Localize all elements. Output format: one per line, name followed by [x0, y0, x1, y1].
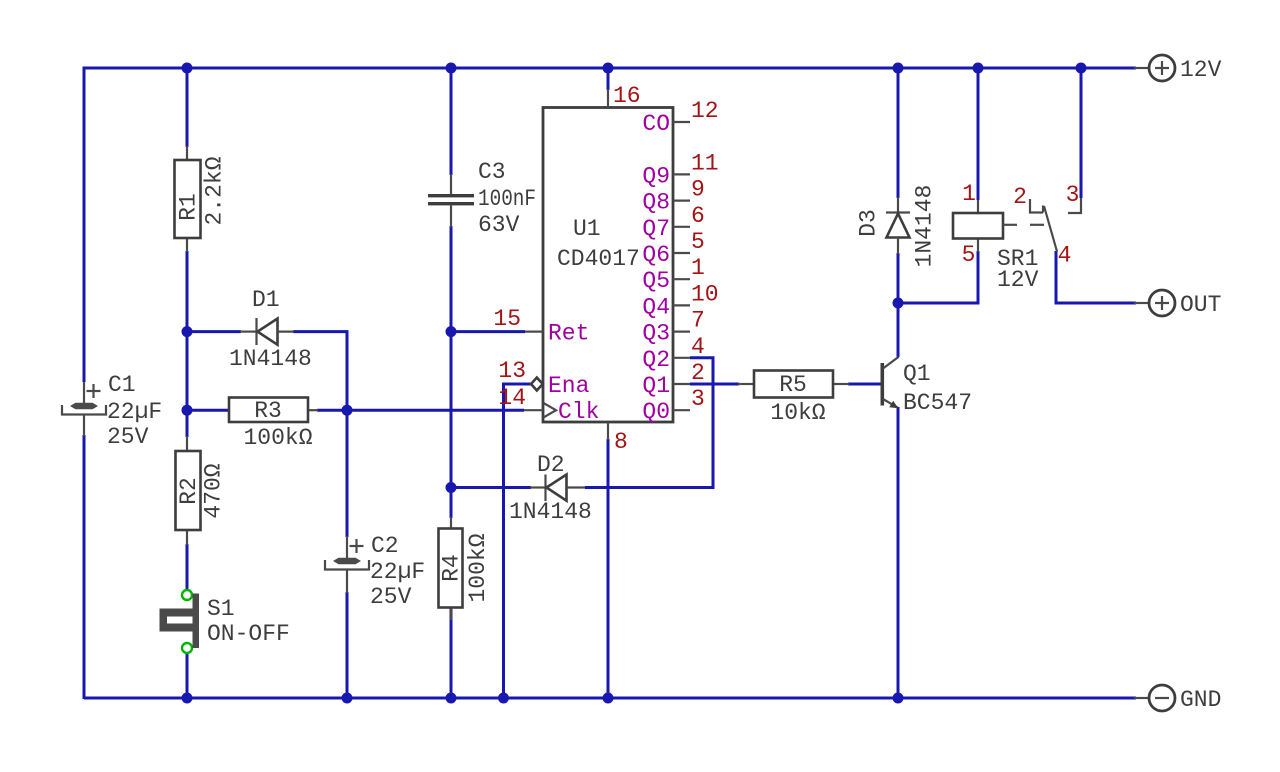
svg-text:Q4: Q4: [642, 294, 670, 320]
svg-text:Q3: Q3: [642, 321, 670, 347]
pin Ena 13 with diamond: [498, 358, 589, 399]
svg-text:CO: CO: [642, 111, 670, 137]
junction 12V rail / C3: [446, 63, 457, 74]
resistor R1: [175, 146, 228, 252]
capacitor C2: [325, 533, 425, 610]
svg-text:Ret: Ret: [548, 321, 589, 347]
junction GND rail / C2: [342, 693, 353, 704]
svg-text:9: 9: [691, 177, 705, 203]
wire Ret node to pin 15: [451, 330, 525, 333]
pin 8 VSS stub: [608, 422, 628, 455]
svg-text:R2: R2: [176, 477, 202, 505]
pin Ret 15: [493, 306, 589, 347]
wire R1 to node D1: [186, 251, 189, 332]
node R3 / D1 / C2: [342, 405, 353, 416]
wire contact pin 4 to OUT: [1056, 251, 1136, 303]
terminal OUT: [1134, 290, 1221, 318]
junction 12V rail / R1: [182, 63, 193, 74]
svg-text:BC547: BC547: [903, 390, 972, 416]
svg-text:5: 5: [691, 229, 705, 255]
node R1 / D1 / R2: [182, 326, 193, 337]
svg-text:10kΩ: 10kΩ: [770, 400, 825, 426]
svg-text:22µF: 22µF: [370, 559, 425, 585]
relay SR1 moving blade pin 4: [1044, 206, 1071, 269]
wire Q1 pin to R5: [690, 383, 739, 386]
svg-text:Q7: Q7: [642, 216, 670, 242]
svg-text:D3: D3: [856, 209, 882, 237]
svg-text:14: 14: [498, 385, 526, 411]
svg-text:7: 7: [691, 308, 705, 334]
wire R5 to Q1 base: [848, 383, 881, 386]
svg-text:3: 3: [1066, 182, 1080, 208]
svg-text:12V: 12V: [1180, 57, 1222, 83]
svg-text:R1: R1: [176, 193, 202, 221]
wire R4 to GND rail: [450, 607, 453, 698]
junction GND rail / R4: [446, 693, 457, 704]
svg-text:Q1: Q1: [642, 373, 670, 399]
pin CO 12: [642, 98, 718, 137]
node R4 / D2: [446, 482, 457, 493]
svg-text:1N4148: 1N4148: [509, 499, 592, 525]
pin Q7 6: [642, 203, 704, 242]
pin Q9 11: [642, 150, 718, 189]
IC U1 CD4017 body: [543, 108, 673, 423]
svg-text:R5: R5: [779, 372, 807, 398]
svg-text:D2: D2: [537, 452, 565, 478]
switch S1: [160, 590, 290, 653]
wire collector node to Q1 collector: [897, 303, 900, 357]
svg-text:R4: R4: [439, 554, 465, 582]
svg-text:Q1: Q1: [903, 361, 931, 387]
junction 12V rail / contact 3: [1076, 63, 1087, 74]
pin Q1 2: [642, 360, 704, 399]
svg-text:12: 12: [691, 98, 719, 124]
relay SR1 actuator dashes: [1003, 224, 1044, 226]
svg-text:13: 13: [498, 358, 526, 384]
svg-text:8: 8: [614, 429, 628, 455]
svg-text:R3: R3: [254, 398, 282, 424]
relay SR1 contact pin 2: [1013, 184, 1043, 213]
svg-text:OUT: OUT: [1180, 292, 1221, 318]
diode D3: [856, 185, 938, 268]
svg-text:12V: 12V: [997, 267, 1039, 293]
wire node to D1 anode: [187, 330, 241, 333]
wire R3 left: [187, 409, 229, 412]
junction 12V rail / pin16: [603, 63, 614, 74]
pin Q8 9: [642, 177, 704, 216]
junction 12V rail / relay coil: [973, 63, 984, 74]
node C3 / Ret: [446, 326, 457, 337]
pin Clk 14 with clock wedge: [498, 385, 599, 425]
svg-text:25V: 25V: [370, 584, 412, 610]
svg-text:CD4017: CD4017: [557, 246, 640, 272]
pin Q4 10: [642, 281, 718, 320]
svg-text:1: 1: [691, 255, 705, 281]
svg-text:2.2kΩ: 2.2kΩ: [202, 156, 228, 225]
wire pin 8 to GND rail: [607, 439, 610, 698]
svg-text:63V: 63V: [478, 212, 520, 238]
junction 12V rail / D3: [893, 63, 904, 74]
svg-text:Q6: Q6: [642, 242, 670, 268]
wire 12V rail to relay pin 1: [977, 68, 980, 200]
resistor R5: [738, 371, 849, 427]
svg-text:Clk: Clk: [558, 399, 599, 425]
wire D3 bottom to collector node: [897, 253, 900, 303]
resistor R3: [229, 398, 318, 452]
svg-text:10: 10: [691, 281, 719, 307]
wire R2 to S1: [186, 544, 189, 590]
wire Q2 pin to D2 anode: [585, 358, 713, 488]
terminal 12V: [1134, 55, 1222, 83]
svg-text:2: 2: [691, 360, 705, 386]
wire R3 right to Clk pin: [317, 409, 524, 412]
transistor Q1 BC547: [881, 357, 973, 416]
svg-text:ON-OFF: ON-OFF: [207, 621, 290, 647]
svg-text:16: 16: [613, 83, 641, 109]
svg-text:GND: GND: [1180, 687, 1221, 713]
svg-text:Q2: Q2: [642, 347, 670, 373]
resistor R2: [176, 436, 227, 545]
wire 12V rail to R1: [186, 68, 189, 147]
svg-text:15: 15: [493, 306, 521, 332]
svg-text:25V: 25V: [107, 424, 149, 450]
svg-text:Ena: Ena: [548, 373, 590, 399]
svg-text:S1: S1: [207, 596, 235, 622]
wire D3 top from 12V rail: [897, 68, 900, 198]
svg-text:Q8: Q8: [642, 190, 670, 216]
wire GND bottom rail: [84, 697, 1136, 700]
svg-text:3: 3: [691, 386, 705, 412]
svg-text:11: 11: [691, 150, 719, 176]
wire 12V rail to contact pin 3: [1080, 68, 1083, 198]
svg-text:U1: U1: [573, 216, 601, 242]
pin 16 VDD stub: [608, 83, 641, 109]
capacitor C3: [428, 159, 536, 238]
svg-text:Q5: Q5: [642, 268, 670, 294]
svg-text:Q9: Q9: [642, 163, 670, 189]
svg-text:5: 5: [962, 242, 976, 268]
svg-text:C2: C2: [371, 533, 399, 559]
junction GND rail / Ena: [498, 693, 509, 704]
wire C1 to GND rail: [83, 435, 86, 699]
wire R3 node to C2: [346, 410, 349, 537]
svg-text:D1: D1: [252, 287, 280, 313]
node D3 / relay / collector: [893, 298, 904, 309]
wire R4 node to D2 cathode: [451, 486, 531, 489]
terminal GND: [1134, 685, 1221, 713]
pin Q5 1: [642, 255, 704, 294]
junction GND rail / pin8: [603, 693, 614, 704]
diode D2: [509, 452, 592, 525]
wire D1 cathode to R3 node: [293, 332, 347, 411]
svg-text:Q0: Q0: [642, 399, 670, 425]
svg-text:4: 4: [1058, 243, 1072, 269]
wire 12V top rail: [84, 67, 1136, 70]
resistor R4: [439, 517, 492, 620]
svg-text:2: 2: [1013, 184, 1027, 210]
diode D1: [229, 287, 312, 372]
svg-text:C1: C1: [108, 372, 136, 398]
svg-text:4: 4: [691, 334, 705, 360]
svg-text:100kΩ: 100kΩ: [465, 533, 491, 602]
wire Q1 emitter to GND rail: [897, 407, 900, 698]
svg-text:1N4148: 1N4148: [229, 346, 312, 372]
svg-text:C3: C3: [478, 159, 506, 185]
capacitor C1: [62, 372, 162, 450]
wire 12V rail to pin 16: [607, 68, 610, 90]
wire 12V rail to C3: [450, 68, 453, 175]
relay SR1 contact pin 3: [1066, 182, 1081, 213]
svg-text:100nF: 100nF: [478, 186, 536, 212]
pin Q2 4: [642, 334, 704, 373]
svg-text:100kΩ: 100kΩ: [243, 425, 312, 451]
wire node D1 to R2: [186, 332, 189, 437]
wire C2 to GND rail: [346, 592, 349, 698]
junction GND rail / S1: [182, 693, 193, 704]
pin Q3 7: [642, 308, 704, 347]
svg-text:1: 1: [962, 181, 976, 207]
svg-text:1N4148: 1N4148: [912, 185, 938, 268]
pin Q6 5: [642, 229, 704, 268]
wire C3 to Ret node to R4: [450, 226, 453, 518]
junction GND rail / Q1 emitter: [893, 693, 904, 704]
svg-text:6: 6: [691, 203, 705, 229]
wire left rail upper (12V to C1): [83, 67, 86, 383]
wire Ena pin to GND rail: [504, 384, 532, 698]
svg-text:470Ω: 470Ω: [201, 463, 227, 518]
relay SR1 coil: [953, 181, 1039, 293]
wire collector node to relay pin 5: [898, 251, 978, 303]
svg-text:22µF: 22µF: [107, 399, 162, 425]
wire S1 to GND rail: [186, 654, 189, 699]
node R2 / R3: [182, 405, 193, 416]
pin Q0 3: [642, 386, 704, 425]
